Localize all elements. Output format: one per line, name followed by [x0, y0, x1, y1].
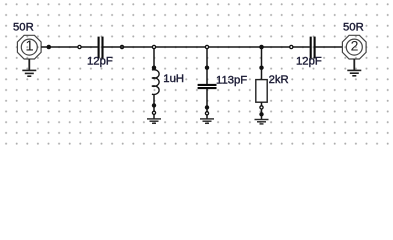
svg-text:1uH: 1uH — [163, 73, 184, 85]
node ring at C3 top junction — [205, 45, 208, 48]
L1 bottom lead — [153, 94, 155, 119]
svg-text:2kR: 2kR — [269, 74, 289, 86]
svg-text:50R: 50R — [343, 22, 364, 34]
capacitor C2 left terminal ring — [290, 45, 293, 48]
wire port1 to C1 — [41, 46, 98, 48]
ground under C3 — [200, 119, 214, 123]
wire C2 to port2 — [316, 46, 343, 48]
svg-text:1: 1 — [25, 38, 33, 55]
resistor R1 branch top wire — [261, 47, 263, 80]
capacitor C3 plates — [198, 84, 217, 86]
capacitor C3 branch top wire — [206, 47, 208, 84]
R1 ground node dot — [259, 112, 263, 116]
svg-text:50R: 50R — [13, 22, 34, 34]
port P1 ground — [22, 59, 36, 76]
svg-text:2: 2 — [351, 38, 359, 54]
inductor L1 coil — [152, 70, 159, 95]
resistor R1 body — [256, 80, 267, 103]
node dot after port1 — [47, 45, 52, 50]
main wire C1 to C2 — [103, 46, 309, 48]
R1 bottom terminal ring — [260, 106, 263, 109]
junction dot at R1 top — [259, 45, 264, 50]
port P1 octagon U1 — [17, 35, 41, 59]
C3 bottom terminal dot — [205, 105, 209, 109]
L1 top terminal dot — [152, 66, 156, 70]
port P2 ground — [347, 59, 361, 76]
R1 bottom lead — [261, 102, 263, 119]
port P2 octagon — [342, 35, 366, 59]
C3 bottom lead — [206, 89, 208, 119]
L1 ground node ring — [152, 111, 155, 114]
inductor L1 branch wire top — [153, 47, 155, 70]
capacitor C2 plates — [310, 37, 312, 59]
capacitor C1 plates — [98, 37, 100, 59]
C3 top terminal dot — [205, 66, 209, 70]
L1 bottom terminal dot — [152, 103, 156, 107]
R1 top terminal dot — [259, 66, 263, 70]
capacitor C1 terminals — [78, 45, 81, 48]
node ring at L1 top junction — [152, 45, 155, 48]
ground under R1 — [255, 120, 269, 124]
svg-text:12pF: 12pF — [87, 55, 113, 67]
svg-text:12pF: 12pF — [296, 56, 322, 68]
ground under L1 — [147, 119, 161, 123]
C3 ground node ring — [205, 112, 208, 115]
svg-text:113pF: 113pF — [216, 75, 247, 87]
